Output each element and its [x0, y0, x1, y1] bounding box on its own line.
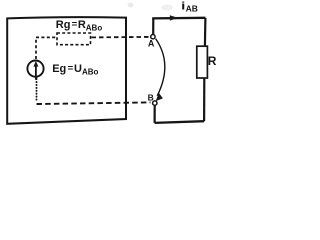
wire: below R to bottom corner [203, 78, 205, 121]
wire: dashed from Rg to terminal A [92, 36, 151, 39]
svg-text:B: B [148, 92, 154, 102]
wire: dashed bottom run to terminal B [37, 102, 151, 104]
current arrowhead on top wire [170, 15, 178, 20]
wire: right down to resistor R [204, 18, 207, 47]
resistor R [197, 46, 208, 78]
source arrow (inside circle, pointing up) [35, 65, 37, 80]
terminal A [151, 35, 155, 39]
terminal B [153, 101, 157, 105]
arc A to B (curved arrow) [156, 39, 165, 96]
wire: dashed corner from source top to Rg [36, 37, 56, 59]
svg-text:AB: AB [186, 3, 198, 13]
wire: bottom run to B [155, 121, 205, 123]
wire: dotted from source bottom [35, 77, 37, 80]
resistor Rg (dashed rectangle) [57, 33, 91, 45]
outer box (two-terminal source enclosure) [7, 17, 126, 124]
wire: B down to bottom [154, 105, 156, 123]
svg-text:R: R [208, 54, 217, 68]
faint scan smudges [128, 3, 134, 8]
voltage source Eg circle [27, 61, 43, 77]
wire: A up to top [152, 18, 154, 34]
svg-text:A: A [148, 39, 155, 49]
wire: top run [152, 17, 205, 20]
